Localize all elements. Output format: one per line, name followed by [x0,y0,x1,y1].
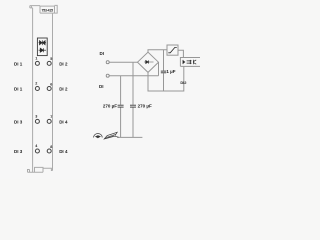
svg-text:DI 4: DI 4 [59,149,68,154]
svg-text:2: 2 [35,82,37,86]
svg-text:6: 6 [50,82,52,86]
svg-text:1 µF: 1 µF [166,69,175,74]
svg-text:DI 4: DI 4 [59,119,68,124]
svg-text:DI 2: DI 2 [59,86,68,91]
svg-text:7: 7 [50,115,52,119]
svg-text:DI: DI [99,84,104,89]
svg-text:DI 3: DI 3 [14,149,23,154]
svg-text:753-415: 753-415 [41,8,53,12]
svg-text:270 µF: 270 µF [103,103,117,108]
svg-text:DI: DI [100,51,105,56]
svg-text:DI2: DI2 [180,80,187,85]
svg-text:8: 8 [50,145,52,149]
svg-text:5: 5 [50,57,52,61]
svg-text:DI 1: DI 1 [14,61,23,66]
svg-text:270 µF: 270 µF [138,103,152,108]
svg-text:DI 3: DI 3 [14,119,23,124]
svg-text:DI 2: DI 2 [59,61,68,66]
svg-text:DI 1: DI 1 [14,86,23,91]
svg-text:3: 3 [35,115,37,119]
svg-text:1: 1 [35,57,37,61]
